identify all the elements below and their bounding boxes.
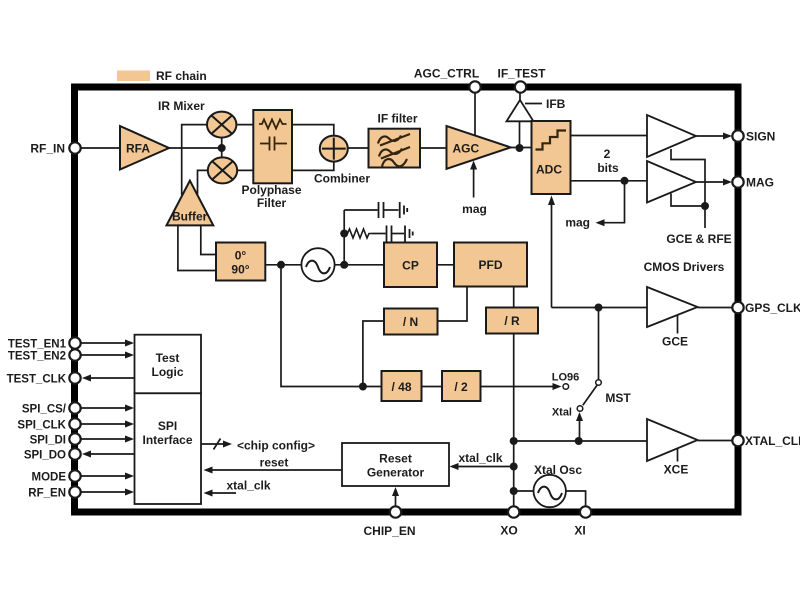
- svg-text:TEST_CLK: TEST_CLK: [7, 374, 67, 386]
- wire xtal distribution line: [514, 440, 647, 442]
- svg-text:MST: MST: [605, 391, 631, 405]
- block SPI Interface: [135, 393, 202, 504]
- wire filter tap vertical: [343, 210, 345, 265]
- wire combiner to IF filter: [348, 147, 369, 149]
- port CHIP_EN: [390, 506, 401, 517]
- arrow reset to SPI: [206, 469, 342, 471]
- resistor icon in polyphase: [259, 120, 287, 129]
- buffer IFB triangle: [507, 100, 534, 121]
- block Polyphase Filter: [253, 110, 292, 183]
- port RF_IN: [69, 142, 80, 153]
- svg-text:SPI_CS/: SPI_CS/: [22, 404, 67, 416]
- svg-text:mag: mag: [565, 216, 590, 230]
- wire enable GCE-RFE: [671, 149, 705, 206]
- svg-text:IFB: IFB: [546, 97, 566, 111]
- svg-text:CMOS Drivers: CMOS Drivers: [644, 260, 725, 274]
- svg-text:<chip config>: <chip config>: [237, 439, 315, 453]
- amplifier AGC: [447, 126, 511, 169]
- svg-text:Buffer: Buffer: [172, 210, 208, 224]
- svg-text:LO96: LO96: [552, 372, 580, 384]
- block Test Logic: [135, 335, 202, 394]
- svg-text:GCE & RFE: GCE & RFE: [666, 232, 731, 246]
- block divider 48: [382, 371, 422, 401]
- svg-text:ADC: ADC: [536, 163, 562, 177]
- svg-text:Combiner: Combiner: [314, 172, 370, 186]
- wire xtal osc right to XI: [566, 491, 586, 507]
- wire xtal osc left: [514, 490, 534, 492]
- port XI: [580, 506, 591, 517]
- svg-text:reset: reset: [260, 456, 289, 470]
- arrow TEST_EN1: [81, 342, 127, 344]
- svg-text:AGC: AGC: [453, 142, 480, 156]
- wire PFD to divider R: [513, 287, 515, 308]
- wire R divider down to XO: [513, 334, 515, 510]
- wire ADC mag out: [571, 180, 648, 182]
- wire MST common vertical: [598, 308, 600, 380]
- svg-text:AGC_CTRL: AGC_CTRL: [414, 67, 479, 81]
- node divider tap: [277, 261, 285, 269]
- port TEST_EN2: [69, 349, 80, 360]
- svg-text:Generator: Generator: [367, 466, 425, 480]
- port AGC_CTRL: [469, 81, 480, 92]
- ground top: [400, 202, 408, 218]
- svg-text:TEST_EN2: TEST_EN2: [8, 351, 66, 363]
- wire GCE to port: [698, 307, 732, 309]
- svg-text:RFA: RFA: [126, 142, 150, 156]
- svg-text:bits: bits: [597, 161, 619, 175]
- arrow sign to port: [696, 135, 725, 137]
- svg-text:xtal_clk: xtal_clk: [226, 479, 270, 493]
- chip boundary: [75, 87, 739, 512]
- combiner: [320, 136, 348, 162]
- wire divider 48 to divider 2: [422, 386, 443, 388]
- wire XCE to port: [698, 440, 732, 442]
- arrow xtal line to Xtal contact: [579, 415, 581, 442]
- arrow TEST_EN2: [81, 354, 127, 356]
- wire buffer input left: [178, 225, 216, 270]
- arrow chip config stub: [201, 443, 228, 445]
- svg-text:RF_EN: RF_EN: [28, 488, 66, 500]
- wire PFD to divider N: [438, 287, 468, 322]
- driver mag (CMOS): [647, 161, 696, 203]
- svg-text:MAG: MAG: [746, 176, 774, 190]
- wire mag tap down-left: [599, 181, 625, 223]
- legend RF chain swatch: [117, 71, 150, 82]
- node xtal line left: [510, 437, 518, 445]
- IF filter icon waves: [378, 134, 410, 167]
- svg-text:RF chain: RF chain: [156, 69, 207, 83]
- driver sign (CMOS): [647, 115, 696, 157]
- svg-text:IR Mixer: IR Mixer: [158, 99, 205, 113]
- block divider R: [486, 308, 538, 334]
- svg-text:XCE: XCE: [664, 463, 689, 477]
- arrow TEST_CLK out: [89, 377, 135, 379]
- wire IFB to node: [519, 121, 521, 148]
- svg-text:SPI_DI: SPI_DI: [30, 435, 66, 447]
- arrow CHIP_EN into reset generator: [395, 490, 397, 510]
- arrow divider 2 to LO96 contact: [481, 386, 559, 388]
- arrow mag into AGC: [473, 164, 475, 198]
- svg-text:RF_IN: RF_IN: [30, 142, 65, 156]
- switch MST lever: [583, 385, 597, 405]
- arrow mag to port: [696, 181, 725, 183]
- contact LO96: [563, 384, 569, 390]
- node MST tap: [595, 304, 603, 312]
- svg-text:IF filter: IF filter: [377, 112, 417, 126]
- node reset-gen xtal tap: [510, 463, 518, 471]
- ADC staircase icon: [536, 131, 567, 150]
- wire RFA to mixer node: [169, 147, 222, 149]
- arrow SPI_DI: [81, 438, 127, 440]
- wire osc to CP: [335, 264, 384, 266]
- port RF_EN: [69, 486, 80, 497]
- block 0-90 phase splitter: [216, 243, 265, 281]
- resistor loop filter: [344, 229, 371, 238]
- wire buffer to top mixer: [182, 125, 207, 195]
- node mag tap: [621, 177, 629, 185]
- amplifier RFA: [120, 126, 169, 170]
- wire mixer split vertical: [221, 138, 223, 158]
- amplifier Buffer: [167, 181, 214, 226]
- svg-text:CHIP_EN: CHIP_EN: [363, 524, 415, 538]
- node AGC-ADC: [516, 144, 524, 152]
- svg-text:XO: XO: [500, 524, 517, 538]
- svg-text:/ 2: / 2: [454, 380, 468, 394]
- port XTAL_CLK: [732, 435, 743, 446]
- arrow SPI_CLK: [81, 423, 127, 425]
- wire 0-90 to osc: [265, 264, 301, 266]
- port SPI_DO: [69, 448, 80, 459]
- block ADC: [532, 121, 571, 194]
- svg-text:/ R: / R: [504, 314, 520, 328]
- svg-text:XTAL_CLK: XTAL_CLK: [745, 434, 800, 448]
- oscillator VCO: [301, 248, 334, 281]
- svg-text:/ 48: / 48: [391, 380, 411, 394]
- capacitor icon in polyphase: [260, 137, 287, 151]
- svg-text:GCE: GCE: [662, 335, 688, 349]
- svg-text:IF_TEST: IF_TEST: [497, 67, 546, 81]
- wire clock line to GCE: [552, 307, 648, 309]
- svg-text:Interface: Interface: [142, 433, 192, 447]
- port TEST_EN1: [69, 337, 80, 348]
- node enable: [701, 202, 709, 210]
- wire AGC to ADC: [511, 147, 532, 149]
- svg-text:/ N: / N: [403, 315, 418, 329]
- svg-text:Filter: Filter: [257, 196, 287, 210]
- svg-text:SPI: SPI: [158, 419, 177, 433]
- port SIGN: [732, 130, 743, 141]
- port SPI_CS: [69, 402, 80, 413]
- svg-text:XI: XI: [574, 524, 585, 538]
- svg-text:MODE: MODE: [32, 472, 67, 484]
- wire AGC_CTRL down to AGC: [474, 93, 476, 136]
- block divider N: [384, 309, 438, 335]
- node divider line tap: [359, 383, 367, 391]
- mixer bottom (Q): [208, 157, 237, 183]
- svg-text:2: 2: [604, 147, 611, 161]
- port MODE: [69, 470, 80, 481]
- oscillator Xtal Osc: [534, 475, 566, 507]
- node xtal line right: [575, 437, 583, 445]
- svg-text:Reset: Reset: [379, 452, 412, 466]
- wire GCE enable stub: [677, 315, 679, 334]
- port SPI_DI: [69, 433, 80, 444]
- block IF filter: [369, 129, 421, 168]
- svg-text:PFD: PFD: [479, 258, 503, 272]
- wire bottom mixer to polyphase: [237, 169, 253, 171]
- arrow ADC clock in: [551, 198, 553, 308]
- arrow xtal_clk stub into SPI: [206, 492, 236, 494]
- node RC branch: [340, 230, 348, 238]
- wire IF filter to AGC: [420, 147, 447, 149]
- svg-text:Test: Test: [156, 351, 180, 365]
- ground middle: [405, 226, 413, 242]
- wire IF_TEST to IFB: [519, 93, 521, 100]
- node mixer split: [218, 144, 226, 152]
- capacitor branch top: [344, 202, 398, 218]
- svg-text:0°: 0°: [235, 249, 247, 263]
- driver GCE: [647, 287, 698, 327]
- arrow RF_EN: [81, 491, 127, 493]
- wire ADC sign out: [571, 135, 648, 137]
- block PFD: [454, 243, 527, 287]
- wire XCE enable stub: [677, 449, 679, 462]
- mixer top (I): [207, 112, 236, 138]
- wire divider N tap: [363, 321, 384, 387]
- contact Xtal: [577, 406, 583, 412]
- wire top mixer to polyphase: [236, 124, 253, 126]
- wire RF_IN to RFA: [81, 147, 120, 149]
- bus slash chip config: [214, 439, 221, 450]
- arrow SPI_DO out: [89, 453, 135, 455]
- wire buffer input right: [201, 225, 216, 254]
- arrow MODE: [81, 475, 127, 477]
- svg-text:xtal_clk: xtal_clk: [458, 451, 502, 465]
- port TEST_CLK: [69, 372, 80, 383]
- wire polyphase top out to combiner: [292, 125, 334, 136]
- capacitor branch middle: [372, 226, 405, 242]
- svg-text:90°: 90°: [231, 263, 249, 277]
- svg-text:Xtal: Xtal: [552, 407, 572, 419]
- block divider 2: [442, 371, 481, 401]
- svg-text:CP: CP: [402, 259, 419, 273]
- contact MST common: [596, 380, 602, 386]
- port MAG: [732, 176, 743, 187]
- node xtal osc tap: [510, 487, 518, 495]
- port GPS_CLK: [732, 302, 743, 313]
- arrow xtal_clk into reset generator: [452, 466, 514, 468]
- IFB pointer line: [525, 103, 542, 105]
- node filter tap: [340, 261, 348, 269]
- wire buffer to bottom mixer: [198, 170, 208, 196]
- wire CP to PFD: [437, 264, 454, 266]
- svg-text:GPS_CLK: GPS_CLK: [745, 301, 800, 315]
- wire VCO to divider 48: [281, 265, 382, 387]
- svg-text:Logic: Logic: [152, 365, 184, 379]
- port IF_TEST: [515, 81, 526, 92]
- svg-text:mag: mag: [462, 202, 487, 216]
- block Reset Generator: [342, 443, 449, 486]
- driver XCE: [647, 419, 698, 461]
- wire polyphase bottom out to combiner: [292, 162, 334, 171]
- port SPI_CLK: [69, 418, 80, 429]
- svg-text:SPI_CLK: SPI_CLK: [17, 420, 66, 432]
- svg-text:SIGN: SIGN: [746, 130, 775, 144]
- svg-text:SPI_DO: SPI_DO: [24, 450, 66, 462]
- port XO: [508, 506, 519, 517]
- block CP: [384, 243, 437, 288]
- svg-text:TEST_EN1: TEST_EN1: [8, 339, 67, 351]
- svg-text:Xtal Osc: Xtal Osc: [534, 463, 582, 477]
- arrow SPI_CS: [81, 407, 127, 409]
